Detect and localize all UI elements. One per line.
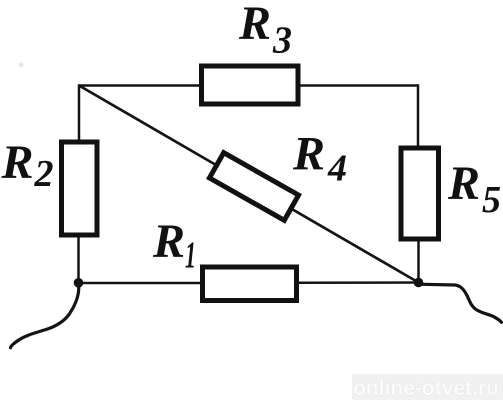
label R4: [292, 128, 347, 190]
svg-text:4: 4: [327, 148, 347, 190]
svg-text:5: 5: [482, 179, 501, 221]
svg-text:R: R: [447, 157, 480, 210]
resistor R5: [401, 148, 439, 239]
svg-text:online-otvet.ru: online-otvet.ru: [353, 377, 499, 400]
svg-text:R: R: [1, 136, 34, 189]
resistor R2: [62, 142, 98, 235]
wire lead bottom-right (curvy external lead): [423, 284, 502, 322]
svg-text:3: 3: [272, 20, 292, 62]
watermark band: [352, 374, 503, 400]
wire lead bottom-left (curvy external lead): [11, 283, 79, 348]
wire top (right segment, R3 to top-right corner): [299, 84, 418, 87]
wire diagonal (top-left corner to bottom-right node, through R4): [79, 86, 419, 283]
resistor R4 (rotated on diagonal): [209, 153, 298, 221]
label R5: [447, 157, 501, 221]
svg-text:R: R: [292, 128, 325, 181]
wire left (R2 down to bottom-left node): [77, 235, 80, 283]
svg-text:2: 2: [34, 153, 54, 195]
svg-text:1: 1: [185, 235, 196, 277]
scan speck: [19, 63, 24, 68]
wire bottom (node to R1): [79, 282, 203, 285]
svg-text:R: R: [152, 215, 185, 268]
node junction bottom-left: [74, 278, 84, 288]
resistor R3: [202, 66, 299, 104]
node junction bottom-right: [414, 278, 424, 288]
wire top (left segment, corner to R3): [79, 84, 201, 87]
resistor R1: [203, 267, 297, 301]
wire bottom (R1 to bottom-right node): [297, 281, 419, 284]
wire right (R5 down to bottom-right node): [417, 239, 420, 283]
wire left (top-left corner down to R2): [78, 84, 81, 142]
label R1: [152, 215, 196, 277]
wire right (top-right corner down to R5): [417, 84, 420, 148]
label R2: [1, 136, 54, 195]
svg-text:R: R: [238, 0, 271, 50]
label R3: [238, 0, 292, 62]
